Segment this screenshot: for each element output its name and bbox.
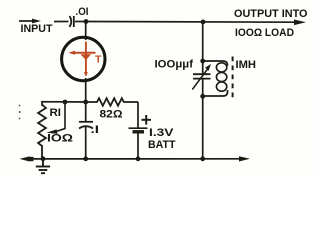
svg-text:.OI: .OI	[76, 6, 89, 18]
wire battery to bottom rail	[137, 133, 139, 159]
wire capacitor to node A	[75, 21, 86, 23]
node C (top rail to tank)	[201, 20, 206, 25]
inductor adjustable core dashed line	[232, 57, 234, 102]
capacitor C1 .01	[70, 16, 74, 27]
node B (middle junction)	[83, 100, 88, 105]
node A (top junction above tunnel diode)	[84, 19, 89, 24]
capacitor C2 .1	[79, 122, 93, 129]
bottom rail right arrow	[239, 156, 250, 161]
bottom rail left arrow	[20, 156, 34, 161]
node F (ground junction)	[41, 156, 46, 161]
resistor 82Ω	[86, 98, 138, 106]
wire tunnel diode to node B	[85, 78, 87, 102]
variable capacitor C3 plates	[193, 74, 211, 78]
wire tank bottom bar	[203, 90, 228, 96]
wire node C down to tank top	[202, 22, 204, 61]
node G (C2 to rail)	[83, 156, 88, 161]
battery B1 plates	[129, 128, 148, 132]
node I (tank to rail)	[200, 156, 205, 161]
wire variable capacitor to tank bottom	[202, 79, 204, 97]
variable capacitor C3 arrow	[192, 64, 211, 90]
inductor L1 coil loops	[216, 63, 226, 91]
wire tank top bar	[203, 61, 228, 66]
svg-text:IOOμμf: IOOμμf	[155, 59, 194, 71]
output arrow	[294, 20, 306, 26]
svg-text:IOOΩ LOAD: IOOΩ LOAD	[235, 27, 294, 39]
node D (tank top junction)	[200, 59, 205, 64]
svg-text:82Ω: 82Ω	[100, 109, 123, 121]
tunnel diode T internal symbol (red)	[68, 42, 95, 77]
svg-text:IMH: IMH	[236, 59, 257, 71]
svg-text:BATT: BATT	[148, 139, 176, 151]
tunnel diode T circle	[62, 37, 105, 80]
node wiper junction	[63, 100, 68, 105]
node E (tank bottom junction)	[200, 94, 205, 99]
wire node B down to capacitor C2	[85, 102, 87, 122]
wire input to capacitor	[54, 21, 69, 23]
bottom rail wire	[26, 158, 242, 160]
wire top rail to output	[86, 21, 298, 24]
wire middle rail left (node B to R1 top)	[42, 102, 86, 106]
potentiometer R1 element	[38, 105, 46, 159]
wire tank bottom to bottom rail	[202, 96, 204, 159]
svg-text:IOΩ: IOΩ	[47, 133, 73, 145]
svg-text:T: T	[95, 54, 102, 66]
wire tank top to variable capacitor	[202, 61, 204, 74]
input arrow	[19, 19, 41, 24]
wire 82Ω to battery	[137, 102, 139, 128]
wire node A down to tunnel diode	[85, 22, 87, 41]
potentiometer R1 wiper arm	[46, 102, 65, 134]
wire capacitor C2 to bottom rail	[85, 127, 87, 159]
battery plus sign	[142, 115, 152, 125]
svg-text:INPUT: INPUT	[21, 23, 53, 35]
svg-text:OUTPUT INTO: OUTPUT INTO	[234, 8, 308, 20]
svg-text:RI: RI	[50, 107, 62, 119]
svg-text:I.3V: I.3V	[149, 127, 174, 139]
svg-text:.I: .I	[91, 124, 100, 136]
ground	[36, 159, 50, 173]
node H (battery to rail)	[136, 156, 141, 161]
scan specks left edge	[19, 105, 21, 120]
